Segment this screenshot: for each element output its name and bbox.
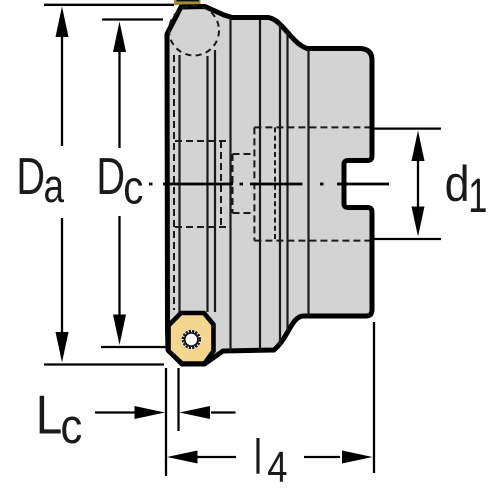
dimension Lc: arrowhead right: [135, 406, 166, 419]
dimension Lc: arrowhead left: [180, 406, 211, 419]
hidden bore thread line (dashed): [274, 127, 276, 240]
dimension Da: arrowhead down: [56, 332, 69, 363]
dimension Da: arrowhead up: [56, 7, 69, 38]
label Dc: [96, 147, 143, 215]
svg-text:1: 1: [468, 169, 487, 223]
dimension Lc: dimension line: [95, 411, 236, 413]
dimension Dc: arrowhead down: [113, 315, 126, 346]
dimension l4: arrowhead left: [167, 451, 198, 464]
hidden rear insert outline (centre, dashed): [233, 154, 255, 213]
label d1: [445, 157, 488, 223]
label l4: [254, 430, 287, 492]
dimension d1: arrowhead down: [412, 207, 425, 237]
centre line (dash-dot axis): [149, 183, 389, 186]
svg-text:a: a: [44, 160, 65, 212]
body step edges (visible revolve lines): [180, 18, 309, 352]
milling cutter body (side view outline with rear bore notch): [167, 7, 372, 365]
dimension l4: extension line: [373, 322, 375, 473]
dimension Da: dimension line: [61, 25, 63, 345]
dimension Dc: arrowhead up: [113, 22, 126, 53]
dimension d1: extension lines: [374, 129, 441, 239]
label Lc: [36, 383, 83, 453]
hidden edge (front face, dashed): [173, 55, 175, 310]
svg-text:c: c: [60, 399, 82, 454]
svg-text:c: c: [123, 162, 143, 215]
octagonal indexable insert (bottom): [169, 313, 214, 364]
svg-text:l: l: [254, 430, 262, 485]
svg-text:L: L: [36, 383, 63, 445]
dimension l4: arrowhead right: [342, 451, 373, 464]
svg-text:D: D: [96, 147, 125, 205]
dimension Da: extension lines: [44, 5, 174, 365]
insert clamping screw (serrated head): [181, 330, 201, 350]
dimension l4: dimension line: [197, 456, 340, 458]
dimension Lc: extension lines: [166, 368, 179, 476]
dimension d1: arrowhead up: [412, 131, 425, 162]
dimension Dc: dimension line: [118, 40, 120, 328]
svg-text:D: D: [16, 147, 45, 205]
indexable insert (top, edge view, partly cropped): [174, 0, 201, 5]
label Da: [16, 147, 64, 212]
svg-text:4: 4: [267, 442, 287, 492]
dimension d1: dimension line: [417, 145, 419, 225]
hidden arbor bore (dashed rectangle): [254, 127, 370, 240]
hidden pocket outline (left, dashed): [175, 141, 231, 227]
dimension Dc: extension lines: [101, 20, 168, 348]
hidden insert seat circle (top pocket, dashed): [169, 6, 219, 56]
svg-text:d: d: [445, 157, 470, 213]
